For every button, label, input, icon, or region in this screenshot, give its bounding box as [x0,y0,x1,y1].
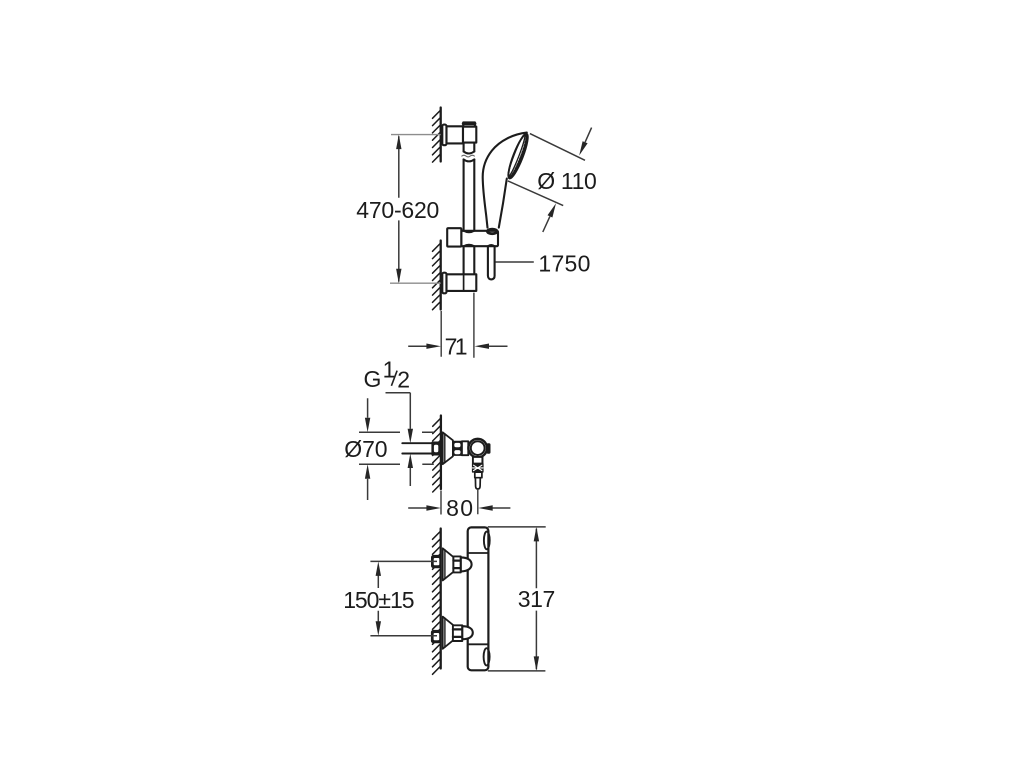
svg-text:Ø70: Ø70 [344,436,387,462]
svg-text:2: 2 [397,367,410,393]
svg-text:150±15: 150±15 [343,587,414,613]
svg-text:1750: 1750 [538,250,590,276]
svg-text:1: 1 [383,356,396,382]
svg-text:G: G [364,366,382,392]
svg-text:Ø 110: Ø 110 [537,168,597,194]
svg-text:470-620: 470-620 [356,197,439,223]
svg-text:80: 80 [446,495,473,521]
svg-text:317: 317 [518,586,556,612]
svg-text:71: 71 [445,333,468,359]
